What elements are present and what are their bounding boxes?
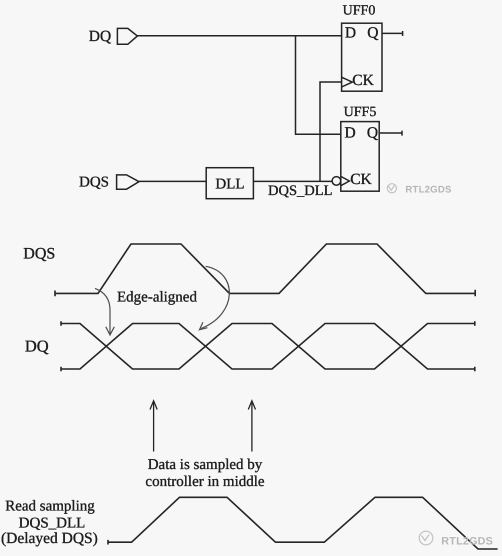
svg-text:CK: CK	[352, 72, 374, 89]
svg-text:RTL2GDS: RTL2GDS	[405, 184, 452, 195]
svg-text:DLL: DLL	[215, 176, 244, 192]
svg-text:CK: CK	[350, 171, 372, 188]
svg-text:UFF5: UFF5	[344, 105, 377, 120]
svg-text:Q: Q	[367, 24, 378, 41]
svg-text:DQ: DQ	[25, 336, 49, 355]
svg-text:D: D	[345, 125, 356, 142]
svg-text:DQS_DLL: DQS_DLL	[268, 183, 332, 199]
svg-text:Data is sampled by: Data is sampled by	[148, 457, 263, 473]
svg-text:Read sampling: Read sampling	[5, 498, 95, 514]
svg-text:RTL2GDS: RTL2GDS	[441, 536, 493, 548]
svg-text:DQS: DQS	[79, 174, 109, 190]
svg-text:Edge-aligned: Edge-aligned	[117, 289, 197, 305]
svg-text:controller in middle: controller in middle	[145, 474, 264, 490]
svg-text:D: D	[345, 24, 356, 41]
svg-text:(Delayed DQS): (Delayed DQS)	[1, 530, 98, 547]
svg-text:DQ: DQ	[89, 28, 111, 45]
svg-text:Q: Q	[367, 125, 378, 142]
svg-text:DQS: DQS	[23, 246, 55, 263]
svg-text:UFF0: UFF0	[343, 3, 376, 18]
